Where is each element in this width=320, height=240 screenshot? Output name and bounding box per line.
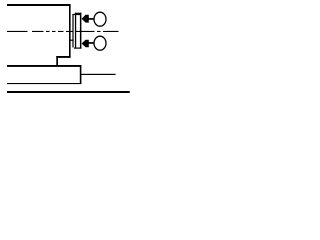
frame column (long vertical) <box>69 4 71 57</box>
centerline dash 3 <box>46 31 50 32</box>
piston rod vertical <box>72 14 73 48</box>
bracket tick <box>70 40 74 41</box>
centerline dash 6 <box>66 31 73 32</box>
centerline dash 2 <box>32 31 44 32</box>
centerline dash 5 <box>58 31 64 32</box>
shaft line to the right <box>81 74 116 75</box>
arrow 1 shaft <box>89 18 95 20</box>
centerline dash 4 <box>52 31 56 32</box>
cylinder bottom <box>74 48 81 49</box>
bearing block right wall <box>80 65 82 84</box>
roller 1 (upper circle) <box>94 12 106 26</box>
centerline dash 1 <box>7 31 28 32</box>
middle base beam <box>7 65 81 67</box>
force arrow 2 (lower, pointing left) <box>82 40 89 48</box>
cylinder left wall <box>75 13 76 49</box>
step vertical at column foot <box>56 56 58 65</box>
force arrow 1 (upper, pointing left) <box>82 15 89 23</box>
bottom base beam <box>7 91 130 93</box>
piston rod top nub <box>72 14 81 15</box>
centerline dash 8 <box>97 31 101 32</box>
arrow 2 shaft <box>89 42 95 44</box>
bearing block bottom line <box>7 83 81 84</box>
top frame beam <box>7 4 71 6</box>
cylinder top <box>75 13 81 14</box>
centerline dash 7 <box>76 31 95 32</box>
background <box>0 0 131 100</box>
centerline dash 9 <box>103 31 119 32</box>
roller 2 (lower circle) <box>94 36 106 50</box>
cylinder right wall <box>80 13 82 49</box>
step horizontal at column foot <box>56 56 70 58</box>
